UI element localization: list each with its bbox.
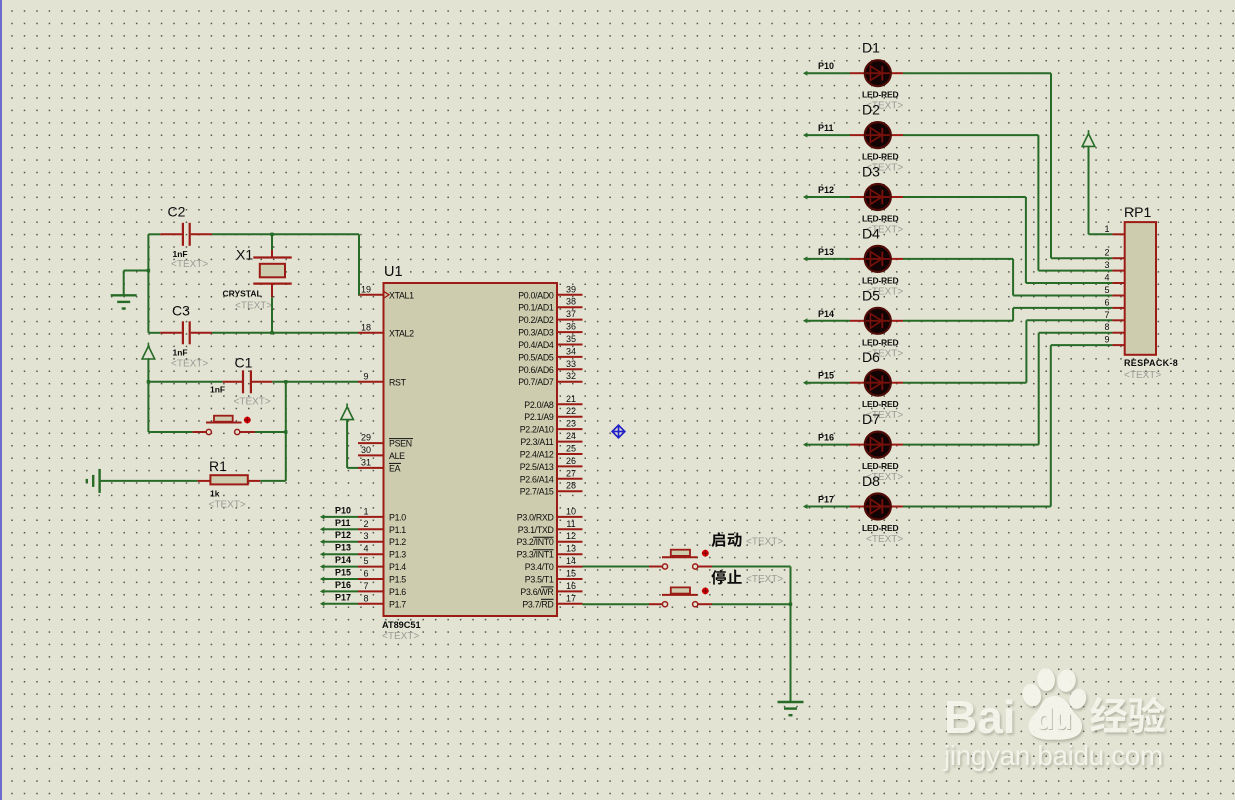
- U1 pin 1 P1.0: [358, 516, 384, 518]
- junction stop button: [789, 603, 792, 606]
- wire: LED D8 to resistor pack: [903, 506, 1051, 508]
- svg-text:P2.0/A8: P2.0/A8: [524, 400, 554, 410]
- svg-text:9: 9: [1104, 335, 1109, 345]
- svg-text:LED-RED: LED-RED: [862, 523, 898, 533]
- svg-text:P10: P10: [335, 505, 351, 515]
- svg-text:LED-RED: LED-RED: [862, 152, 898, 162]
- wire: P12 net with terminal arrow: [323, 541, 359, 543]
- U1 pin 21 P2.0/A8: [557, 403, 583, 405]
- svg-text:P3.2/INT0: P3.2/INT0: [517, 537, 554, 547]
- svg-text:P14: P14: [818, 309, 834, 319]
- svg-text:RST: RST: [389, 377, 407, 387]
- U1 pin 39 P0.0/AD0: [557, 294, 583, 296]
- svg-text:<TEXT>: <TEXT>: [746, 537, 783, 548]
- svg-text:X1: X1: [236, 247, 253, 263]
- svg-text:RP1: RP1: [1124, 204, 1151, 220]
- svg-text:D6: D6: [862, 349, 880, 365]
- svg-text:D7: D7: [862, 411, 880, 427]
- U1 pin 24 P2.3/A11: [557, 441, 583, 443]
- svg-text:11: 11: [566, 519, 575, 529]
- wire: P17 net with terminal arrow: [323, 603, 359, 605]
- svg-text:U1: U1: [384, 264, 403, 280]
- svg-text:28: 28: [566, 481, 576, 491]
- U1 pin 36 P0.3/AD3: [557, 331, 583, 333]
- svg-text:ALE: ALE: [389, 451, 405, 461]
- svg-text:7: 7: [1104, 310, 1109, 320]
- wire: P15 net with terminal arrow: [323, 578, 359, 580]
- svg-text:12: 12: [566, 531, 576, 541]
- U1 pin 11 P3.1/TXD: [557, 528, 583, 530]
- push button stop (tingzhi): [583, 603, 650, 605]
- junction RST right branch: [284, 380, 287, 383]
- wire: LED D7 to resistor pack: [903, 444, 1039, 446]
- svg-text:P1.4: P1.4: [389, 562, 406, 572]
- wire: P13 net with terminal arrow: [323, 553, 359, 555]
- Baidu Jingyan watermark: [943, 668, 1165, 771]
- U1 pin 13 P3.3/INT1: [557, 553, 583, 555]
- U1 pin 29 PSEN: [358, 442, 384, 444]
- svg-text:27: 27: [566, 468, 576, 478]
- U1 pin 8 P1.7: [358, 603, 384, 605]
- RP1 pin 9: [1112, 344, 1124, 346]
- svg-text:4: 4: [1104, 273, 1109, 283]
- IC U1 AT89C51 microcontroller body: [384, 283, 558, 616]
- junction crystal bottom: [270, 331, 273, 334]
- U1 pin 15 P3.5/T1: [557, 578, 583, 580]
- junction RST left: [147, 380, 150, 383]
- wire: P14 net with terminal arrow: [323, 566, 359, 568]
- RP1 pin 6: [1112, 307, 1124, 309]
- svg-text:7: 7: [363, 581, 368, 591]
- svg-text:P2.1/A9: P2.1/A9: [524, 412, 554, 422]
- svg-text:D2: D2: [862, 102, 880, 118]
- svg-text:2: 2: [1104, 248, 1109, 258]
- svg-text:<TEXT>: <TEXT>: [171, 259, 208, 270]
- svg-text:13: 13: [566, 544, 576, 554]
- svg-text:C1: C1: [235, 355, 253, 371]
- svg-text:P13: P13: [818, 247, 834, 257]
- svg-text:<TEXT>: <TEXT>: [866, 534, 903, 545]
- wire: power arrow stem to EA: [346, 420, 348, 468]
- wire: reset button to R1 vertical: [255, 431, 286, 433]
- wire: vertical down to reset button: [147, 382, 149, 432]
- wire: XTAL1 net vertical down to pin 19: [358, 234, 360, 294]
- svg-text:D3: D3: [862, 164, 880, 180]
- U1 pin 27 P2.6/A14: [557, 478, 583, 480]
- blue origin marker: [612, 425, 626, 439]
- svg-text:26: 26: [566, 456, 576, 466]
- U1 pin 25 P2.4/A12: [557, 453, 583, 455]
- RP1 pin 7: [1112, 319, 1124, 321]
- svg-text:P0.0/AD0: P0.0/AD0: [518, 290, 554, 300]
- svg-text:8: 8: [363, 593, 368, 603]
- svg-text:R1: R1: [209, 458, 227, 474]
- wire: P12 LED net with terminal arrow: [806, 196, 851, 198]
- svg-text:34: 34: [566, 346, 576, 356]
- U1 pin 12 P3.2/INT0: [557, 541, 583, 543]
- LED D1: [850, 72, 864, 74]
- svg-text:P1.5: P1.5: [389, 575, 406, 585]
- power arrow near RP1: [1082, 134, 1095, 147]
- LED D6: [850, 382, 864, 384]
- ground symbol below buttons: [778, 701, 804, 703]
- svg-text:PSEN: PSEN: [389, 439, 412, 449]
- RP1 pin 3: [1112, 270, 1124, 272]
- resistor pack RP1 body: [1125, 222, 1156, 355]
- svg-text:D5: D5: [862, 287, 880, 303]
- svg-text:P0.3/AD3: P0.3/AD3: [518, 328, 554, 338]
- wire: power arrow stem to RST net: [147, 359, 149, 382]
- svg-text:18: 18: [361, 322, 371, 332]
- wire: P16 net with terminal arrow: [323, 590, 359, 592]
- wire: P13 LED net with terminal arrow: [806, 258, 851, 260]
- start button label qi dong: [711, 532, 725, 547]
- wire: P16 LED net with terminal arrow: [806, 444, 851, 446]
- svg-text:P16: P16: [335, 580, 351, 590]
- svg-text:1nF: 1nF: [173, 249, 188, 259]
- U1 pin 33 P0.6/AD6: [557, 368, 583, 370]
- svg-text:P2.7/A15: P2.7/A15: [520, 487, 554, 497]
- svg-text:XTAL2: XTAL2: [389, 328, 414, 338]
- svg-text:LED-RED: LED-RED: [862, 90, 898, 100]
- svg-text:22: 22: [566, 406, 576, 416]
- svg-text:P12: P12: [818, 185, 834, 195]
- svg-text:P1.7: P1.7: [389, 599, 406, 609]
- RP1 pin 5: [1112, 295, 1124, 297]
- wire: LED D6 to resistor pack: [903, 382, 1026, 384]
- svg-text:P2.2/A10: P2.2/A10: [520, 425, 554, 435]
- svg-text:25: 25: [566, 444, 576, 454]
- svg-text:P1.3: P1.3: [389, 550, 406, 560]
- LED D5: [850, 320, 864, 322]
- U1 pin 38 P0.1/AD1: [557, 306, 583, 308]
- svg-text:P0.1/AD1: P0.1/AD1: [518, 303, 554, 313]
- svg-text:35: 35: [566, 334, 576, 344]
- svg-text:1: 1: [363, 506, 368, 516]
- svg-text:CRYSTAL: CRYSTAL: [223, 289, 262, 299]
- wire: ground branch horizontal: [124, 270, 149, 272]
- svg-text:P3.3/INT1: P3.3/INT1: [517, 550, 554, 560]
- svg-text:LED-RED: LED-RED: [862, 214, 898, 224]
- wire: crystal top stub to XTAL1 net: [271, 234, 273, 250]
- svg-text:6: 6: [363, 569, 368, 579]
- LED D8: [850, 506, 864, 508]
- push button start (qidong): [583, 566, 650, 568]
- svg-text:23: 23: [566, 419, 576, 429]
- svg-text:P15: P15: [818, 371, 834, 381]
- RP1 pin 1: [1112, 233, 1124, 235]
- svg-text:P15: P15: [335, 568, 351, 578]
- svg-text:19: 19: [361, 284, 371, 294]
- svg-text:1nF: 1nF: [210, 385, 225, 395]
- svg-text:<TEXT>: <TEXT>: [1124, 370, 1161, 381]
- stop button label ting zhi: [711, 570, 726, 585]
- svg-text:P3.5/T1: P3.5/T1: [525, 575, 554, 585]
- svg-text:P10: P10: [818, 61, 834, 71]
- svg-text:14: 14: [566, 556, 576, 566]
- U1 pin 14 P3.4/T0: [557, 566, 583, 568]
- U1 pin 6 P1.5: [358, 578, 384, 580]
- svg-text:P2.6/A14: P2.6/A14: [520, 474, 554, 484]
- svg-text:2: 2: [363, 519, 368, 529]
- wire: ground branch vertical: [123, 271, 125, 296]
- svg-text:P16: P16: [818, 433, 834, 443]
- junction crystal top: [270, 233, 273, 236]
- svg-text:<TEXT>: <TEXT>: [209, 500, 246, 511]
- crystal X1 top lead: [271, 250, 273, 258]
- wire: RST net horizontal: [148, 381, 222, 383]
- svg-text:29: 29: [361, 433, 371, 443]
- wire: P15 LED net with terminal arrow: [806, 382, 851, 384]
- svg-text:LED-RED: LED-RED: [862, 461, 898, 471]
- wire: vertical from C2 wire down to C3 wire: [147, 234, 149, 332]
- RP1 pin 8: [1112, 332, 1124, 334]
- svg-text:<TEXT>: <TEXT>: [382, 631, 419, 642]
- svg-text:3: 3: [363, 531, 368, 541]
- svg-text:P3.1/TXD: P3.1/TXD: [518, 525, 554, 535]
- svg-text:P3.4/T0: P3.4/T0: [525, 562, 554, 572]
- wire: XTAL2 net horizontal from C3 to pin 18: [148, 332, 160, 334]
- U1 pin 22 P2.1/A9: [557, 416, 583, 418]
- wire: P10 net with terminal arrow: [323, 516, 359, 518]
- svg-text:P2.3/A11: P2.3/A11: [520, 437, 554, 447]
- U1 pin 18 XTAL2: [358, 332, 384, 334]
- svg-text:AT89C51: AT89C51: [382, 620, 421, 630]
- LED D7: [850, 444, 864, 446]
- wire: LED D3 to resistor pack: [903, 196, 1026, 198]
- svg-text:24: 24: [566, 431, 576, 441]
- svg-text:5: 5: [363, 556, 368, 566]
- crystal X1 body: [260, 264, 285, 278]
- wire: LED D1 to resistor pack: [903, 72, 1051, 74]
- svg-text:<TEXT>: <TEXT>: [234, 397, 271, 408]
- U1 pin 37 P0.2/AD2: [557, 319, 583, 321]
- LED D2: [850, 134, 864, 136]
- svg-text:LED-RED: LED-RED: [862, 337, 898, 347]
- svg-text:P11: P11: [818, 123, 834, 133]
- svg-text:6: 6: [1104, 297, 1109, 307]
- svg-text:P17: P17: [335, 592, 351, 602]
- svg-text:D4: D4: [862, 225, 880, 241]
- LED D3: [850, 196, 864, 198]
- U1 pin 19 XTAL1: [358, 294, 384, 296]
- U1 pin 30 ALE: [358, 454, 384, 456]
- U1 pin 4 P1.3: [358, 553, 384, 555]
- watermark jingyan characters: [1090, 697, 1127, 732]
- resistor R1: [100, 480, 198, 482]
- svg-text:P3.6/WR: P3.6/WR: [520, 587, 553, 597]
- svg-text:9: 9: [363, 371, 368, 381]
- svg-text:5: 5: [1104, 285, 1109, 295]
- RP1 pin 2: [1112, 257, 1124, 259]
- U1 pin 10 P3.0/RXD: [557, 516, 583, 518]
- U1 pin 23 P2.2/A10: [557, 428, 583, 430]
- svg-text:P1.2: P1.2: [389, 537, 406, 547]
- svg-text:<TEXT>: <TEXT>: [171, 359, 208, 370]
- junction at ground branch: [147, 269, 150, 272]
- wire: XTAL1 net horizontal from C2 to corner: [148, 233, 160, 235]
- svg-text:P2.5/A13: P2.5/A13: [520, 462, 554, 472]
- U1 pin 26 P2.5/A13: [557, 465, 583, 467]
- junction button right: [284, 430, 287, 433]
- svg-text:C2: C2: [168, 204, 186, 220]
- push button reset: [193, 431, 207, 433]
- svg-text:10: 10: [566, 506, 576, 516]
- wire: P11 LED net with terminal arrow: [806, 134, 851, 136]
- svg-text:<TEXT>: <TEXT>: [746, 574, 783, 585]
- svg-text:P1.6: P1.6: [389, 587, 406, 597]
- wire: buttons to ground vertical: [790, 567, 792, 703]
- U1 pin 32 P0.7/AD7: [557, 381, 583, 383]
- U1 pin 5 P1.4: [358, 566, 384, 568]
- svg-text:P2.4/A12: P2.4/A12: [520, 450, 554, 460]
- svg-text:30: 30: [361, 445, 371, 455]
- watermark paw logo: [1020, 668, 1089, 740]
- power arrow near C3: [142, 346, 155, 359]
- U1 pin 31 EA: [358, 467, 384, 469]
- wire: crystal bottom stub to XTAL2 net: [271, 297, 273, 333]
- svg-text:8: 8: [1104, 322, 1109, 332]
- wire: P17 LED net with terminal arrow: [806, 506, 851, 508]
- svg-text:33: 33: [566, 359, 576, 369]
- svg-text:1: 1: [1104, 224, 1109, 234]
- svg-text:16: 16: [566, 581, 576, 591]
- svg-text:1nF: 1nF: [173, 348, 188, 358]
- wire: RP1 pin1 to power: [1088, 146, 1090, 234]
- svg-text:LED-RED: LED-RED: [862, 275, 898, 285]
- svg-text:P11: P11: [335, 518, 351, 528]
- svg-text:38: 38: [566, 297, 576, 307]
- capacitor C2: [160, 233, 182, 235]
- ground symbol near C2: [111, 294, 137, 296]
- LED D4: [850, 258, 864, 260]
- svg-text:D1: D1: [862, 40, 880, 56]
- svg-text:jingyan.baidu.com: jingyan.baidu.com: [943, 740, 1163, 771]
- svg-text:P0.7/AD7: P0.7/AD7: [518, 377, 554, 387]
- svg-text:Bai: Bai: [944, 691, 1016, 743]
- capacitor C3: [160, 332, 182, 334]
- svg-text:C3: C3: [172, 303, 190, 319]
- wire: LED D5 to resistor pack: [903, 320, 1013, 322]
- U1 pin 3 P1.2: [358, 541, 384, 543]
- capacitor C1: [223, 381, 242, 383]
- power arrow near EA pin: [341, 407, 354, 420]
- svg-text:P3.0/RXD: P3.0/RXD: [517, 512, 554, 522]
- svg-text:15: 15: [566, 569, 576, 579]
- svg-text:37: 37: [566, 309, 576, 319]
- svg-text:17: 17: [566, 593, 576, 603]
- svg-text:P0.2/AD2: P0.2/AD2: [518, 315, 554, 325]
- svg-text:P1.0: P1.0: [389, 512, 406, 522]
- svg-text:XTAL1: XTAL1: [389, 290, 414, 300]
- svg-text:31: 31: [361, 457, 371, 467]
- svg-text:P17: P17: [818, 495, 834, 505]
- U1 pin 7 P1.6: [358, 590, 384, 592]
- svg-text:4: 4: [363, 544, 368, 554]
- U1 pin 28 P2.7/A15: [557, 490, 583, 492]
- svg-text:P3.7/RD: P3.7/RD: [522, 599, 553, 609]
- svg-text:3: 3: [1104, 260, 1109, 270]
- wire: R1 right lead to vertical: [260, 480, 286, 482]
- svg-text:32: 32: [566, 371, 576, 381]
- U1 pin 34 P0.5/AD5: [557, 356, 583, 358]
- svg-text:1k: 1k: [210, 489, 220, 499]
- U1 pin 35 P0.4/AD4: [557, 344, 583, 346]
- svg-text:P14: P14: [335, 555, 351, 565]
- svg-text:P0.5/AD5: P0.5/AD5: [518, 352, 554, 362]
- U1 pin 2 P1.1: [358, 528, 384, 530]
- svg-text:P0.6/AD6: P0.6/AD6: [518, 365, 554, 375]
- svg-text:RESPACK-8: RESPACK-8: [1124, 358, 1178, 368]
- svg-text:P1.1: P1.1: [389, 525, 406, 535]
- ground symbol rotated left of R1: [98, 469, 100, 493]
- wire: vertical from RST net down to R1: [285, 382, 287, 481]
- svg-text:P12: P12: [335, 530, 351, 540]
- wire: P14 LED net with terminal arrow: [806, 320, 851, 322]
- wire: LED D4 to resistor pack: [903, 258, 1013, 260]
- wire: LED D2 to resistor pack: [903, 134, 1038, 136]
- svg-text:D8: D8: [862, 473, 880, 489]
- U1 pin 17 P3.7/RD: [557, 603, 583, 605]
- window left edge line: [0, 0, 2, 800]
- svg-text:39: 39: [566, 284, 576, 294]
- svg-text:LED-RED: LED-RED: [862, 399, 898, 409]
- svg-text:<TEXT>: <TEXT>: [235, 301, 272, 312]
- RP1 pin 4: [1112, 282, 1124, 284]
- svg-text:EA: EA: [389, 463, 401, 473]
- wire: P10 LED net with terminal arrow: [806, 72, 851, 74]
- svg-text:21: 21: [566, 394, 576, 404]
- svg-text:du: du: [1036, 703, 1073, 736]
- U1 pin 16 P3.6/WR: [557, 590, 583, 592]
- U1 pin 9 RST: [358, 381, 384, 383]
- svg-text:P0.4/AD4: P0.4/AD4: [518, 340, 554, 350]
- wire: P11 net with terminal arrow: [323, 528, 359, 530]
- svg-text:P13: P13: [335, 543, 351, 553]
- svg-text:36: 36: [566, 322, 576, 332]
- crystal X1 bottom lead: [253, 283, 291, 285]
